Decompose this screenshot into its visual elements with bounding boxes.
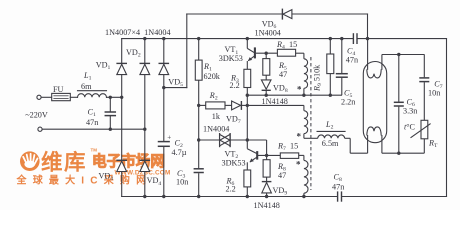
svg-text:C1: C1 — [88, 107, 96, 118]
svg-text:VD8: VD8 — [273, 84, 288, 95]
svg-text:全球最大IC采购网: 全球最大IC采购网 — [16, 174, 153, 187]
svg-text:47: 47 — [278, 171, 286, 180]
svg-text:1N4148: 1N4148 — [262, 97, 288, 106]
svg-text:620k: 620k — [204, 72, 221, 81]
svg-text:47n: 47n — [86, 118, 98, 127]
svg-text:~220V: ~220V — [25, 110, 48, 119]
svg-text:6.5m: 6.5m — [322, 139, 339, 148]
svg-text:3.3n: 3.3n — [403, 106, 417, 115]
svg-text:15: 15 — [289, 40, 297, 49]
svg-text:*: * — [296, 160, 301, 170]
svg-text:+: + — [167, 133, 171, 141]
svg-text:6m: 6m — [81, 82, 92, 91]
svg-text:R2: R2 — [209, 91, 218, 102]
svg-text:10n: 10n — [176, 178, 188, 187]
svg-text:R9 510k: R9 510k — [313, 64, 324, 92]
svg-text:47: 47 — [279, 70, 287, 79]
svg-text:维库: 维库 — [41, 150, 87, 175]
svg-text:3DK53: 3DK53 — [219, 54, 243, 63]
svg-text:1N4004: 1N4004 — [203, 125, 229, 134]
svg-text:VD1: VD1 — [96, 61, 111, 72]
svg-text:R4: R4 — [276, 40, 285, 51]
svg-text:*: * — [297, 132, 302, 142]
svg-text:电子市场网: 电子市场网 — [92, 152, 165, 170]
svg-text:RT: RT — [428, 138, 438, 149]
svg-text:47n: 47n — [346, 56, 358, 65]
svg-text:VD5: VD5 — [168, 77, 183, 88]
svg-text:TM: TM — [91, 148, 98, 153]
svg-text:L1: L1 — [83, 71, 92, 82]
svg-text:L2: L2 — [325, 120, 334, 131]
svg-text:FU: FU — [53, 85, 64, 94]
svg-text:2.2: 2.2 — [230, 81, 240, 90]
svg-text:VD3: VD3 — [99, 171, 114, 182]
svg-text:47n: 47n — [332, 183, 344, 192]
svg-text:1k: 1k — [212, 112, 221, 121]
svg-text:1N4004: 1N4004 — [255, 28, 281, 37]
svg-text:3DK53: 3DK53 — [222, 159, 246, 168]
svg-text:2.2: 2.2 — [226, 184, 236, 193]
svg-text:VD9: VD9 — [273, 186, 288, 197]
svg-text:2.2n: 2.2n — [341, 98, 355, 107]
svg-text:15: 15 — [290, 141, 298, 150]
svg-text:*: * — [297, 85, 302, 95]
svg-text:R7: R7 — [277, 141, 286, 152]
svg-text:VD2: VD2 — [126, 48, 141, 59]
svg-text:4.7µ: 4.7µ — [172, 148, 187, 157]
svg-text:10n: 10n — [428, 89, 440, 98]
svg-text:1N4148: 1N4148 — [254, 201, 280, 210]
svg-text:1N4007×4 1N4004: 1N4007×4 1N4004 — [105, 28, 171, 37]
svg-text:t°C: t°C — [404, 122, 416, 131]
